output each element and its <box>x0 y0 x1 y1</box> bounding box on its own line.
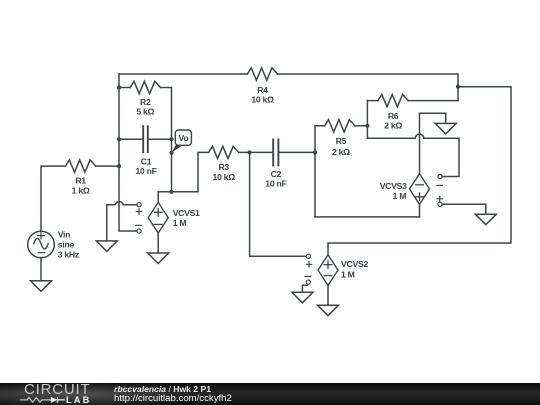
ground below VCVS2 <box>318 305 339 316</box>
VCVS2 minus sign <box>324 275 332 277</box>
wire C1 right lead <box>148 138 172 140</box>
resistor R2 <box>130 81 160 93</box>
VCVS1 plus sign <box>154 209 162 217</box>
wire R2 left lead <box>119 87 130 89</box>
wire feedback right side to VCVS2 top <box>328 87 511 255</box>
wire R1 left lead and drop to Vin <box>41 166 66 231</box>
svg-text:sine: sine <box>58 240 75 250</box>
capacitor C1 <box>143 126 148 152</box>
node dot R2 left <box>117 85 121 89</box>
wire top net from R2 node to R4 left <box>119 73 247 75</box>
svg-text:C1: C1 <box>141 157 152 167</box>
VCVS1 minus sign <box>154 223 162 225</box>
svg-text:Vin: Vin <box>58 230 70 240</box>
svg-text:1 kΩ: 1 kΩ <box>72 185 90 195</box>
ground below VCVS1 <box>148 253 169 264</box>
ground at VCVS3 top <box>435 123 456 133</box>
wire Vo node down to VCVS1 top <box>158 191 198 193</box>
node dot C2-R5 <box>313 150 317 154</box>
wire VCVS1 plus sense terminal to ground (hop over vertical) <box>107 202 137 241</box>
svg-text:VCVS2: VCVS2 <box>341 259 368 269</box>
resistor R1 <box>66 160 96 172</box>
terminal circle VCVS3 plus <box>438 202 442 206</box>
wire R5 left lead <box>315 125 325 127</box>
wire VCVS3 bottom lead <box>419 204 421 217</box>
VCVS2 terminal minus sign <box>305 276 310 278</box>
svg-text:10 kΩ: 10 kΩ <box>213 172 236 182</box>
svg-text:10 nF: 10 nF <box>135 166 156 176</box>
wire C1 left lead <box>119 138 143 140</box>
wire VCVS3 plus sense to ground <box>442 204 486 214</box>
wire R4 right to top-right corner <box>278 74 458 101</box>
svg-text:R4: R4 <box>257 85 268 95</box>
node dot R3-C2 <box>248 150 252 154</box>
dependent source VCVS1 diamond <box>148 202 168 233</box>
ground for VCVS2 minus sense <box>292 292 313 303</box>
wire R5 node to VCVS3 minus sense (hop over vertical) <box>367 134 459 176</box>
svg-text:VCVS1: VCVS1 <box>173 208 200 218</box>
wire drop from R3-C2 node to VCVS2 plus terminal <box>250 152 307 256</box>
CircuitLab logo CIRCUIT <box>24 384 90 395</box>
node dot R5-R6 <box>365 124 369 128</box>
VCVS3 terminal minus sign <box>437 184 442 186</box>
node dot Vo anchor <box>169 151 173 155</box>
svg-text:1 M: 1 M <box>393 191 407 201</box>
wire R2 right lead down to Vo node <box>160 88 171 192</box>
svg-text:10 nF: 10 nF <box>265 178 286 188</box>
VCVS2 plus sign <box>324 261 332 269</box>
VCVS1 terminal plus sign <box>136 209 141 214</box>
node Vo callout box <box>175 130 191 145</box>
svg-text:Vo: Vo <box>178 133 188 143</box>
wire C2 left lead <box>250 151 274 153</box>
Vin minus sign <box>38 252 45 254</box>
wire C2 right lead <box>278 151 315 153</box>
CircuitLab logo symbol <box>18 395 68 405</box>
svg-text:5 kΩ: 5 kΩ <box>136 107 154 117</box>
wire R3 right lead <box>239 151 250 153</box>
VCVS3 minus sign <box>416 184 424 186</box>
wire VCVS2 bottom to ground <box>327 285 329 305</box>
wire VCVS1 bottom to ground <box>157 233 159 253</box>
wire R6 left lead <box>367 100 378 102</box>
resistor R5 <box>325 120 355 132</box>
VCVS2 terminal plus sign <box>306 262 311 267</box>
wire VCVS1 top lead <box>157 192 159 203</box>
svg-text:2 kΩ: 2 kΩ <box>384 120 402 130</box>
ground for VCVS3 plus sense <box>475 214 496 225</box>
resistor R4 <box>247 68 277 80</box>
ground for VCVS1 sense <box>96 241 117 252</box>
VCVS1 terminal minus sign <box>136 224 141 226</box>
wire bottom net x315 to VCVS3 <box>315 216 420 218</box>
node dot VCVS1 top net <box>169 190 173 194</box>
footer url <box>114 395 232 403</box>
svg-text:R3: R3 <box>218 162 229 172</box>
wire Vin bottom to ground <box>40 258 42 281</box>
resistor R6 <box>378 94 408 106</box>
VCVS3 plus sign <box>416 193 424 201</box>
wire riser to R3 <box>198 152 209 191</box>
ground below Vin <box>31 281 52 292</box>
svg-text:2 kΩ: 2 kΩ <box>332 147 350 157</box>
terminal circle VCVS1 plus <box>137 203 141 207</box>
dependent source VCVS3 diamond <box>410 174 430 205</box>
dependent source VCVS2 diamond <box>318 255 338 286</box>
svg-text:VCVS3: VCVS3 <box>380 181 407 191</box>
resistor R3 <box>209 146 239 158</box>
wire left vertical main node <box>119 74 137 231</box>
svg-text:10 kΩ: 10 kΩ <box>251 95 274 105</box>
wire R5 right lead <box>355 125 368 127</box>
node dot R1 right <box>117 164 121 168</box>
wire VCVS2 minus sense hook to ground <box>302 285 307 292</box>
wire R6 right lead <box>408 100 458 102</box>
terminal circle VCVS2 plus <box>306 254 310 258</box>
wire R1 right lead <box>96 165 119 167</box>
capacitor C2 <box>273 139 278 165</box>
Vin sine symbol <box>34 238 48 249</box>
svg-text:R5: R5 <box>336 136 347 146</box>
CircuitLab logo LAB <box>66 397 92 404</box>
wire VCVS3 top to ground stub <box>420 113 446 123</box>
svg-text:3 kHz: 3 kHz <box>58 249 80 259</box>
wire vertical at x315 R5 to bottom <box>314 126 316 217</box>
Vo callout tail <box>172 143 183 153</box>
footer title <box>114 385 211 393</box>
svg-text:1 M: 1 M <box>341 270 355 280</box>
Vin plus sign <box>38 232 45 239</box>
voltage source Vin circle <box>28 231 55 258</box>
terminal circle VCVS1 minus <box>137 229 141 233</box>
svg-text:1 M: 1 M <box>173 218 187 228</box>
wire R6 branch vertical <box>366 101 368 139</box>
terminal circle VCVS3 minus <box>438 174 442 178</box>
terminal circle VCVS2 minus <box>306 280 310 284</box>
VCVS3 terminal plus sign <box>437 196 442 201</box>
svg-text:R2: R2 <box>140 97 151 107</box>
node dot C1 left <box>117 137 121 141</box>
node dot C1 right <box>169 137 173 141</box>
wire VCVS3 top lead <box>419 113 421 173</box>
footer bar <box>0 383 540 405</box>
node dot top right <box>456 85 460 89</box>
svg-text:R1: R1 <box>75 176 86 186</box>
